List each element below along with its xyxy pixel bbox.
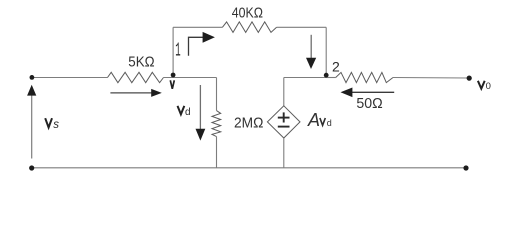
current arrow through 5K (shaft) (110, 92, 152, 94)
svg-text:50Ω: 50Ω (356, 96, 382, 112)
terminal dot top-left (30, 75, 35, 80)
svg-text:s: s (53, 119, 59, 131)
voltage vd arrow head (196, 129, 206, 141)
dependent source Avd (diamond) (267, 106, 300, 138)
wire: down to node 2 (325, 27, 327, 74)
svg-text:d: d (327, 118, 332, 128)
svg-text:2: 2 (332, 59, 340, 75)
wire: node 2 to 50 ohm resistor (326, 77, 336, 79)
current arrow through 5K (head) (151, 89, 162, 97)
wire: node v to corner above 2M (164, 77, 217, 79)
label vd (178, 106, 185, 114)
node 2 dot (324, 73, 329, 78)
label v (170, 80, 174, 89)
resistor 40KΩ (zigzag) (222, 22, 276, 33)
svg-text:A: A (307, 110, 320, 130)
current arrow through 50 ohm (shaft) (352, 91, 394, 93)
wire: left top rail from source to 5K resistor (32, 77, 108, 79)
voltage vd arrow shaft (199, 85, 201, 130)
svg-text:1: 1 (175, 40, 180, 62)
svg-text:40KΩ: 40KΩ (232, 5, 263, 22)
svg-text:2MΩ: 2MΩ (234, 116, 264, 132)
source Vs arrow head (27, 85, 36, 96)
svg-text:0: 0 (486, 81, 491, 92)
wire: node v up to top branch (172, 27, 174, 74)
bent current arrow at node 1 (head) (203, 32, 215, 43)
wire: down to 2M resistor (216, 78, 218, 111)
wire: 2M to bottom rail (216, 137, 218, 168)
current arrow into node 2 (shaft) (310, 35, 312, 59)
current arrow into node 2 (head) (306, 58, 316, 69)
source Vs arrow shaft (31, 95, 33, 158)
resistor 5KΩ (zigzag) (108, 72, 164, 82)
bottom rail (32, 167, 466, 169)
label Vs (45, 118, 52, 127)
wire: top rail right (277, 26, 327, 28)
svg-text:d: d (185, 107, 191, 118)
wire: node 2 rail over dependent source (284, 77, 326, 79)
resistor 50Ω (zigzag) (336, 72, 393, 82)
wire: dependent source to bottom rail (283, 138, 285, 168)
plus-minus symbol inside source (278, 112, 290, 126)
wire: top rail left (173, 26, 222, 28)
terminal dot bottom-left (29, 165, 34, 170)
resistor 2MΩ (vertical zigzag) (212, 111, 221, 137)
label v0 (478, 81, 485, 89)
current arrow through 50 ohm (head) (341, 88, 353, 98)
wire: 50 ohm to output terminal (393, 77, 468, 80)
bent current arrow at node 1 (shaft) (189, 37, 204, 56)
svg-text:5KΩ: 5KΩ (128, 55, 154, 71)
node v dot (171, 73, 176, 78)
output terminal dot (467, 76, 472, 81)
wire: down to dependent source top (283, 78, 285, 106)
terminal dot bottom-right (463, 165, 468, 170)
